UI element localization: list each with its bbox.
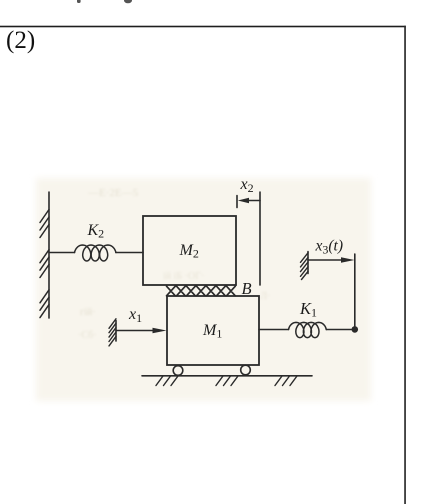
svg-text:·Сб·: ·Сб· [78, 330, 97, 341]
x1 anchor wall [115, 321, 117, 342]
ground hatch group 3 [275, 376, 297, 386]
svg-text:x3(t): x3(t) [315, 238, 344, 257]
svg-text:гій·: гій· [80, 307, 96, 318]
frame right line [404, 26, 406, 504]
mass M2 box [143, 216, 236, 285]
x3 anchor wall [307, 252, 309, 274]
left wall line [48, 192, 50, 318]
node dot [352, 326, 359, 333]
x3 arrow [308, 259, 342, 261]
left wall hatch group 2 [40, 250, 49, 278]
mass M1 box [167, 296, 259, 365]
left wall hatch group 1 [40, 210, 49, 238]
spring K1 coil [289, 322, 327, 337]
top cut text fragment left [77, 0, 81, 3]
x2 arrow [249, 200, 261, 202]
right vertical line [354, 254, 356, 326]
wheel left [173, 366, 183, 376]
top cut text fragment right [124, 0, 132, 3]
spring K1 lead right [326, 329, 352, 331]
left wall hatch group 3 [40, 290, 49, 318]
svg-text:(2): (2) [6, 27, 35, 54]
spring K2 lead right [116, 252, 143, 254]
spring K2 lead left [49, 252, 75, 254]
wheel right [241, 365, 251, 375]
friction element B crosshatch [167, 286, 236, 296]
spring K2 coil [75, 245, 116, 261]
svg-text:ій іБ ·ОГ·: ій іБ ·ОГ· [163, 271, 204, 282]
frame top line [0, 26, 406, 28]
x2 reference vertical line [259, 192, 261, 285]
x2 tick line [236, 196, 238, 208]
ground hatch group 2 [216, 376, 238, 386]
ground line [142, 375, 312, 377]
svg-text:—E·2E—5: —E·2E—5 [87, 187, 139, 199]
ground hatch group 1 [156, 376, 178, 386]
x1 arrow [116, 330, 154, 332]
svg-text:B: B [242, 279, 252, 298]
scan cream tint [36, 178, 371, 401]
spring K1 lead left [259, 329, 289, 331]
